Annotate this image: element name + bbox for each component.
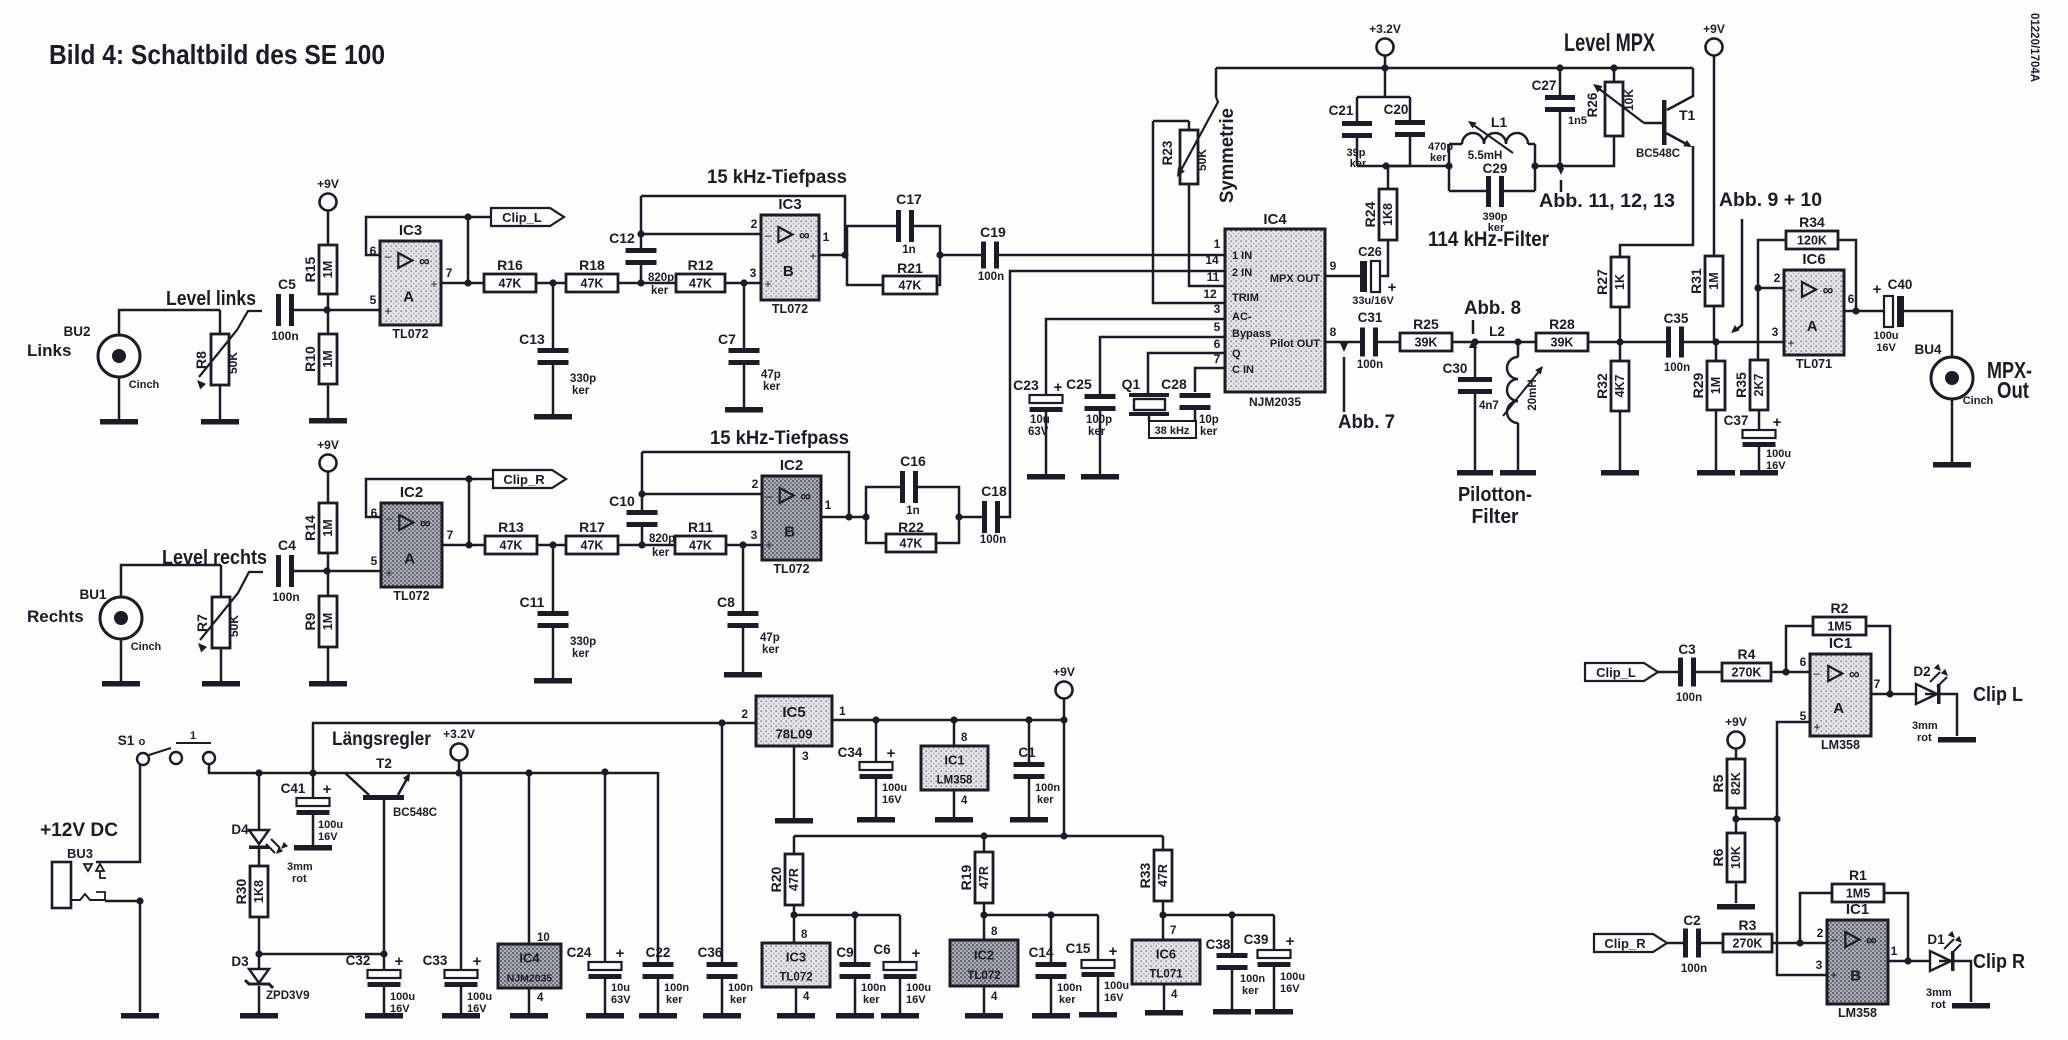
wire 15kHz feedback (right) bbox=[642, 452, 849, 517]
ground R6 bbox=[1717, 904, 1755, 910]
svg-text:C26: C26 bbox=[1358, 244, 1382, 259]
node C36 tap bbox=[718, 719, 725, 726]
resistor R29 1M bbox=[1690, 342, 1725, 410]
svg-text:Links: Links bbox=[27, 341, 71, 360]
svg-text:IC4: IC4 bbox=[1263, 211, 1287, 228]
svg-text:50K: 50K bbox=[227, 615, 241, 637]
wire IC4 pin4 ground lead bbox=[529, 988, 544, 1013]
wire IC3 pin4 ground lead bbox=[796, 987, 810, 1013]
svg-text:Abb. 9 + 10: Abb. 9 + 10 bbox=[1719, 189, 1822, 211]
wire IC3B output bbox=[819, 251, 849, 258]
capacitor C28 10p ker bbox=[1161, 376, 1219, 438]
power +9V (output stage) bbox=[1703, 22, 1725, 56]
wire IC4 pin12 from R23 top bbox=[1153, 121, 1226, 303]
svg-text:7: 7 bbox=[447, 528, 454, 542]
capacitor C19 100n bbox=[940, 224, 1006, 283]
wire +9V output rail bbox=[832, 719, 1064, 722]
svg-text:ker: ker bbox=[1200, 426, 1218, 438]
svg-text:15 kHz-Tiefpass: 15 kHz-Tiefpass bbox=[710, 427, 849, 449]
wire IC2A feedback pin6 bbox=[366, 479, 469, 517]
svg-text:IC5: IC5 bbox=[782, 704, 805, 721]
wire C22 ground lead bbox=[657, 979, 660, 1013]
node IC2 supply bbox=[980, 903, 987, 919]
wire tank to R26 bottom bbox=[1560, 136, 1614, 166]
wire C25 ground lead bbox=[1099, 411, 1102, 474]
svg-text:270K: 270K bbox=[1733, 937, 1763, 951]
wire BU1 to R7 top bbox=[121, 565, 221, 597]
svg-text:BU2: BU2 bbox=[63, 324, 90, 339]
svg-text:50K: 50K bbox=[1195, 149, 1209, 171]
ground BU3 bbox=[121, 1013, 159, 1019]
svg-text:ker: ker bbox=[1037, 794, 1054, 806]
resistor R5 82K bbox=[1710, 748, 1745, 808]
svg-text:IC1: IC1 bbox=[1829, 635, 1852, 652]
svg-text:47p: 47p bbox=[760, 632, 780, 644]
node tank right bbox=[1531, 162, 1560, 169]
node IC3 supply bbox=[790, 905, 797, 919]
svg-text:A: A bbox=[1833, 700, 1844, 717]
svg-text:∞: ∞ bbox=[419, 253, 430, 270]
wire C8 ground lead bbox=[742, 628, 745, 672]
svg-text:+12V DC: +12V DC bbox=[40, 820, 118, 841]
svg-text:C17: C17 bbox=[896, 191, 922, 207]
resistor R19 47R bbox=[958, 836, 993, 903]
svg-text:7: 7 bbox=[1170, 925, 1176, 937]
svg-text:Filter: Filter bbox=[1472, 505, 1519, 528]
svg-text:Q: Q bbox=[1232, 348, 1241, 360]
node Clip_R tap bbox=[465, 475, 472, 482]
svg-text:ker: ker bbox=[572, 385, 590, 397]
wire loop lower to R22 bbox=[866, 517, 886, 543]
label Laengsregler bbox=[332, 729, 432, 750]
wire R17 to node C10 bbox=[618, 544, 675, 547]
resistor R24 1K8 bbox=[1362, 166, 1397, 240]
svg-text:ker: ker bbox=[863, 994, 880, 1006]
wire +9V to R31 bbox=[1713, 56, 1716, 256]
svg-text:1K: 1K bbox=[1613, 274, 1627, 290]
IC block IC6 TL071 supply bbox=[1132, 940, 1200, 984]
node R27/R32 bbox=[1616, 338, 1623, 345]
ground C36 bbox=[703, 1013, 741, 1019]
wire to IC2B pin2 bbox=[642, 477, 762, 494]
node R18/R12/C12 bbox=[637, 279, 644, 286]
resistor R10 1M bbox=[302, 310, 337, 384]
svg-text:R31: R31 bbox=[1688, 268, 1704, 294]
resistor R4 270K bbox=[1696, 646, 1771, 681]
label 15 kHz-Tiefpass (left) bbox=[707, 166, 847, 188]
svg-text:3mm: 3mm bbox=[287, 861, 313, 873]
svg-text:R19: R19 bbox=[958, 864, 974, 890]
switch S1 bbox=[118, 730, 215, 765]
svg-text:820p: 820p bbox=[648, 272, 674, 284]
capacitor C37 100u/16V bbox=[1724, 410, 1791, 472]
svg-text:1M: 1M bbox=[321, 350, 335, 367]
svg-text:IC3: IC3 bbox=[786, 949, 806, 964]
wire R11 to IC2B pin3 bbox=[726, 528, 762, 545]
svg-text:R4: R4 bbox=[1738, 646, 1756, 662]
svg-text:+: + bbox=[1054, 379, 1063, 396]
node C41 tap bbox=[309, 769, 316, 776]
svg-text:4: 4 bbox=[537, 992, 544, 1004]
node R5/R6 divider bbox=[1732, 808, 1739, 833]
capacitor C23 10u/63V bbox=[1013, 377, 1062, 438]
svg-text:Clip R: Clip R bbox=[1973, 951, 2025, 973]
label Links bbox=[27, 341, 71, 360]
op-amp IC2 A (TL072) bbox=[371, 484, 454, 603]
wire R18 to node C12 bbox=[618, 282, 676, 285]
transistor T2 BC548C (Laengsregler) bbox=[345, 756, 437, 954]
wire R3 to IC1B pin2 bbox=[1772, 926, 1827, 943]
svg-text:R21: R21 bbox=[897, 260, 923, 276]
power +3.2V (oscillator) bbox=[1369, 22, 1401, 56]
svg-text:BC548C: BC548C bbox=[1636, 148, 1680, 160]
svg-text:Q1: Q1 bbox=[1122, 376, 1141, 392]
wire R14 to node bbox=[327, 553, 330, 571]
svg-text:R10: R10 bbox=[302, 346, 318, 372]
wire C12 top to feedback bbox=[640, 196, 643, 248]
svg-text:100n: 100n bbox=[1681, 963, 1707, 975]
svg-text:+: + bbox=[1773, 414, 1782, 431]
capacitor C12 820p ker bbox=[609, 230, 674, 297]
wire C16 to right loop node bbox=[918, 487, 959, 517]
wire D1 to ground bbox=[1939, 961, 1971, 1002]
resistor R14 1M bbox=[302, 503, 337, 553]
label Clip R bbox=[1973, 951, 2025, 973]
flag Clip_L input bbox=[1585, 663, 1658, 681]
svg-text:Rechts: Rechts bbox=[27, 607, 84, 626]
svg-text:∞: ∞ bbox=[1823, 282, 1834, 299]
IC block IC4 NJM2035 supply bbox=[498, 944, 561, 988]
svg-text:100u: 100u bbox=[1104, 980, 1129, 992]
wire R2 left lead bbox=[1786, 626, 1813, 672]
svg-text:TL072: TL072 bbox=[967, 970, 1000, 982]
wire loop lower to R21 bbox=[847, 255, 883, 285]
svg-text:TRIM: TRIM bbox=[1232, 292, 1259, 304]
resistor R33 47R bbox=[1137, 836, 1172, 901]
flag Clip_L bbox=[468, 208, 564, 226]
svg-text:C32: C32 bbox=[346, 953, 371, 968]
wire R13 to node C11 bbox=[537, 544, 566, 547]
wire R1 to output node bbox=[1884, 893, 1908, 961]
wire IC3A output pin7 bbox=[441, 217, 472, 287]
svg-text:Symmetrie: Symmetrie bbox=[1216, 108, 1238, 203]
svg-text:1: 1 bbox=[190, 730, 196, 742]
svg-text:R35: R35 bbox=[1733, 372, 1749, 398]
capacitor C9 100n ker bbox=[836, 915, 886, 1006]
svg-text:ker: ker bbox=[1350, 158, 1367, 170]
svg-text:IC2: IC2 bbox=[974, 947, 994, 962]
node pilot filter left bbox=[1471, 338, 1478, 345]
svg-text:1K8: 1K8 bbox=[252, 880, 266, 903]
node C8 tap bbox=[739, 541, 746, 548]
wire +9V to R14 bbox=[327, 472, 330, 503]
LED D1 3mm rot (Clip R) bbox=[1926, 931, 1964, 1011]
svg-text:100n: 100n bbox=[664, 982, 689, 994]
node right input bbox=[323, 567, 330, 574]
svg-text:C15: C15 bbox=[1066, 941, 1091, 956]
capacitor C30 4n7 bbox=[1443, 342, 1499, 412]
svg-text:C39: C39 bbox=[1244, 932, 1269, 947]
svg-text:ker: ker bbox=[652, 547, 670, 559]
svg-text:R18: R18 bbox=[579, 257, 605, 273]
inductor L2 20mH (pilot trap) bbox=[1503, 342, 1546, 470]
svg-text:1M: 1M bbox=[1709, 377, 1723, 394]
ground C11 bbox=[534, 678, 572, 684]
svg-text:3: 3 bbox=[802, 749, 809, 763]
svg-text:R20: R20 bbox=[768, 866, 784, 892]
label MPX-Out bbox=[1987, 357, 2032, 403]
capacitor C6 100u/16V bbox=[873, 915, 931, 1006]
svg-text:1: 1 bbox=[825, 498, 832, 512]
wire IC4 pin3 to C23 bbox=[1046, 302, 1226, 395]
svg-text:TL072: TL072 bbox=[772, 302, 808, 316]
svg-text:01220/1704A: 01220/1704A bbox=[2028, 13, 2040, 82]
node D3/base bbox=[255, 950, 262, 957]
node IC6 pin2 bbox=[1754, 271, 1784, 292]
svg-text:100n: 100n bbox=[272, 590, 299, 604]
svg-text:+9V: +9V bbox=[1725, 715, 1747, 729]
svg-text:Clip_L: Clip_L bbox=[1596, 665, 1636, 680]
svg-text:8: 8 bbox=[801, 929, 808, 941]
svg-text:R29: R29 bbox=[1690, 372, 1706, 398]
svg-text:47R: 47R bbox=[787, 868, 801, 891]
capacitor C15 100u/16V bbox=[1066, 915, 1129, 1004]
power +9V (clip ref) bbox=[1725, 715, 1747, 749]
svg-text:2: 2 bbox=[1774, 271, 1781, 285]
capacitor C24 10u/63V bbox=[567, 772, 632, 1006]
svg-text:+: + bbox=[395, 953, 404, 970]
resistor R15 1M bbox=[302, 245, 337, 294]
IC block IC3 TL072 supply bbox=[762, 943, 830, 987]
capacitor C38 100n ker bbox=[1206, 915, 1266, 997]
svg-text:A: A bbox=[404, 550, 415, 567]
svg-text:Clip_L: Clip_L bbox=[502, 210, 542, 225]
svg-text:Bypass: Bypass bbox=[1232, 328, 1271, 340]
capacitor C29 390p ker (tank) bbox=[1449, 161, 1535, 234]
wire C38 ground lead bbox=[1231, 970, 1234, 1009]
svg-text:A: A bbox=[403, 288, 414, 305]
wire R10 ground lead bbox=[327, 384, 330, 418]
ground R29 bbox=[1697, 470, 1735, 476]
svg-text:C18: C18 bbox=[981, 483, 1007, 499]
svg-text:C41: C41 bbox=[281, 781, 306, 796]
node C34 tap bbox=[872, 716, 879, 723]
LED D2 3mm rot (Clip L) bbox=[1912, 664, 1950, 744]
svg-text:S1: S1 bbox=[118, 733, 135, 748]
ground IC5 bbox=[775, 818, 813, 824]
box label 38 kHz bbox=[1149, 421, 1196, 438]
svg-text:2: 2 bbox=[1817, 926, 1824, 940]
svg-text:R26: R26 bbox=[1585, 92, 1600, 117]
svg-text:ker: ker bbox=[1088, 426, 1106, 438]
ground IC3 supply bbox=[777, 1013, 815, 1019]
resistor R20 47R bbox=[768, 836, 803, 905]
connector BU3 power jack bbox=[52, 846, 106, 908]
svg-text:100n: 100n bbox=[978, 271, 1004, 283]
wire to IC3B pin2 bbox=[641, 217, 761, 234]
svg-text:82K: 82K bbox=[1729, 772, 1743, 795]
IC block IC1 LM358 supply bbox=[921, 746, 988, 790]
svg-text:IC1: IC1 bbox=[1846, 901, 1869, 918]
node R17/R11/C10 bbox=[638, 541, 645, 548]
ground C38 bbox=[1213, 1009, 1251, 1015]
wire BU2 ground lead bbox=[118, 377, 121, 419]
svg-text:3mm: 3mm bbox=[1912, 720, 1938, 732]
svg-text:NJM2035: NJM2035 bbox=[507, 972, 553, 984]
svg-text:rot: rot bbox=[292, 873, 307, 885]
wire +12V rail (T2 section) bbox=[345, 772, 658, 775]
svg-text:Abb. 7: Abb. 7 bbox=[1338, 412, 1395, 433]
svg-text:+9V: +9V bbox=[317, 177, 339, 191]
svg-text:820p: 820p bbox=[649, 533, 675, 545]
ground IC4 supply bbox=[510, 1013, 548, 1019]
node C24 tap bbox=[601, 768, 608, 775]
resistor R13 47K bbox=[469, 519, 537, 554]
capacitor C41 100u/16V bbox=[281, 773, 343, 843]
label Level MPX bbox=[1564, 29, 1655, 57]
svg-text:C3: C3 bbox=[1678, 642, 1696, 657]
svg-text:4n7: 4n7 bbox=[1479, 400, 1499, 412]
svg-text:C20: C20 bbox=[1384, 102, 1409, 117]
svg-text:ZPD3V9: ZPD3V9 bbox=[266, 990, 309, 1002]
resistor R3 270K bbox=[1701, 917, 1772, 952]
wire 15kHz feedback (left) bbox=[641, 196, 845, 255]
wire IC4 pin7 to C28 bbox=[1195, 352, 1226, 392]
svg-text:16V: 16V bbox=[1104, 992, 1124, 1004]
svg-text:∞: ∞ bbox=[800, 488, 811, 505]
svg-text:C21: C21 bbox=[1329, 103, 1354, 118]
wire D3 ground lead bbox=[258, 986, 261, 1013]
svg-text:IC3: IC3 bbox=[399, 222, 422, 239]
wire IC4 pin6 to Q1 bbox=[1148, 337, 1226, 393]
svg-text:R9: R9 bbox=[302, 612, 318, 630]
svg-text:C25: C25 bbox=[1066, 376, 1092, 392]
svg-text:330p: 330p bbox=[570, 373, 596, 385]
svg-text:T2: T2 bbox=[376, 756, 392, 771]
svg-text:C40: C40 bbox=[1888, 277, 1913, 292]
wire C34 ground lead bbox=[875, 779, 878, 817]
wire +3.2V rail bbox=[1216, 56, 1693, 72]
svg-text:C30: C30 bbox=[1443, 361, 1468, 376]
svg-text:AC-: AC- bbox=[1232, 311, 1252, 323]
svg-text:1: 1 bbox=[1891, 944, 1898, 958]
capacitor C21 39p ker bbox=[1329, 68, 1410, 170]
capacitor C40 100u/16V bbox=[1873, 277, 1913, 354]
svg-text:+9V: +9V bbox=[1053, 665, 1075, 679]
op-amp IC1 B (LM358) bbox=[1827, 901, 1898, 1020]
wire IC2B output bbox=[821, 513, 870, 520]
svg-text:+: + bbox=[385, 566, 392, 580]
svg-text:LM358: LM358 bbox=[1821, 738, 1860, 752]
zener diode D3 ZPD3V9 bbox=[231, 954, 309, 1002]
svg-text:R27: R27 bbox=[1594, 269, 1610, 295]
transistor T1 BC548C bbox=[1636, 68, 1696, 160]
wire BU3 sleeve to ground bbox=[105, 897, 144, 1012]
resistor R30 1K8 bbox=[233, 849, 268, 917]
power +9V (left input) bbox=[317, 177, 339, 211]
wire BU3 tip to S1 bbox=[96, 765, 140, 862]
svg-text:+: + bbox=[616, 945, 625, 962]
svg-text:Längsregler: Längsregler bbox=[332, 729, 432, 750]
svg-text:78L09: 78L09 bbox=[776, 727, 813, 742]
svg-text:47K: 47K bbox=[689, 539, 712, 553]
svg-text:8: 8 bbox=[991, 926, 998, 938]
capacitor C5 100n bbox=[271, 276, 298, 343]
resistor R25 39K bbox=[1378, 316, 1452, 351]
svg-text:120K: 120K bbox=[1797, 234, 1827, 248]
ground R10 bbox=[309, 418, 347, 424]
svg-text:C34: C34 bbox=[838, 745, 863, 760]
wire IC1B output bbox=[1888, 957, 1930, 964]
ground C23 bbox=[1027, 474, 1065, 480]
svg-text:1 IN: 1 IN bbox=[1232, 250, 1252, 262]
svg-text:R16: R16 bbox=[497, 257, 523, 273]
svg-text:3: 3 bbox=[1816, 958, 1823, 972]
svg-text:C23: C23 bbox=[1013, 377, 1039, 393]
svg-text:–: – bbox=[386, 511, 393, 525]
svg-text:LM358: LM358 bbox=[937, 774, 973, 786]
wire IC6 output bbox=[1844, 307, 1884, 314]
svg-text:C24: C24 bbox=[567, 945, 592, 960]
wire +12V up to IC5 input bbox=[313, 723, 756, 773]
svg-text:R3: R3 bbox=[1739, 917, 1757, 933]
svg-text:ker: ker bbox=[572, 648, 590, 660]
svg-text:4: 4 bbox=[803, 991, 810, 1003]
svg-text:100n: 100n bbox=[1357, 359, 1383, 371]
resistor R34 120K bbox=[1786, 214, 1838, 249]
svg-text:6: 6 bbox=[1214, 337, 1221, 351]
wire T1 emitter to R27 bbox=[1620, 146, 1693, 257]
svg-text:C13: C13 bbox=[519, 331, 545, 347]
svg-text:2: 2 bbox=[751, 217, 758, 231]
capacitor C1 100n ker bbox=[1014, 720, 1061, 806]
svg-text:270K: 270K bbox=[1732, 666, 1762, 680]
svg-text:15 kHz-Tiefpass: 15 kHz-Tiefpass bbox=[707, 166, 847, 188]
svg-text:+: + bbox=[1388, 279, 1397, 296]
wire IC5 pin3 ground lead bbox=[794, 746, 809, 818]
svg-text:C27: C27 bbox=[1532, 78, 1557, 93]
wire C33 ground lead bbox=[460, 987, 463, 1013]
svg-text:D3: D3 bbox=[231, 954, 249, 969]
wire C41 ground lead bbox=[312, 815, 315, 845]
capacitor C32 100u/16V bbox=[346, 953, 415, 1015]
ground IC1 supply bbox=[935, 817, 973, 823]
wire BU2 to R8 top / Level links node bbox=[119, 310, 220, 335]
wire R1 left lead bbox=[1800, 893, 1832, 943]
svg-text:C6: C6 bbox=[873, 942, 891, 957]
ground D3 bbox=[240, 1013, 278, 1019]
wire R16 to node C13 bbox=[536, 282, 566, 285]
svg-text:R22: R22 bbox=[898, 519, 924, 535]
wire IC1 pin4 ground lead bbox=[954, 790, 968, 817]
resistor R18 47K bbox=[566, 257, 618, 292]
capacitor C34 100u/16V bbox=[838, 720, 907, 806]
svg-text:Clip_R: Clip_R bbox=[1604, 936, 1646, 951]
resistor R2 1M5 bbox=[1813, 600, 1866, 635]
svg-text:47K: 47K bbox=[500, 539, 523, 553]
svg-text:Level links: Level links bbox=[166, 288, 256, 310]
svg-text:50K: 50K bbox=[226, 352, 240, 374]
connector BU2 (Cinch, Links) bbox=[63, 324, 159, 391]
svg-text:+3.2V: +3.2V bbox=[1369, 22, 1401, 36]
potentiometer R23 50K (Symmetrie) bbox=[1153, 97, 1218, 184]
wire R8 ground lead bbox=[219, 385, 222, 419]
wire base rail bbox=[259, 950, 388, 957]
resistor R22 47K bbox=[886, 519, 936, 552]
ground R9 bbox=[309, 681, 347, 687]
svg-text:16V: 16V bbox=[318, 831, 338, 843]
svg-text:+: + bbox=[809, 249, 816, 263]
